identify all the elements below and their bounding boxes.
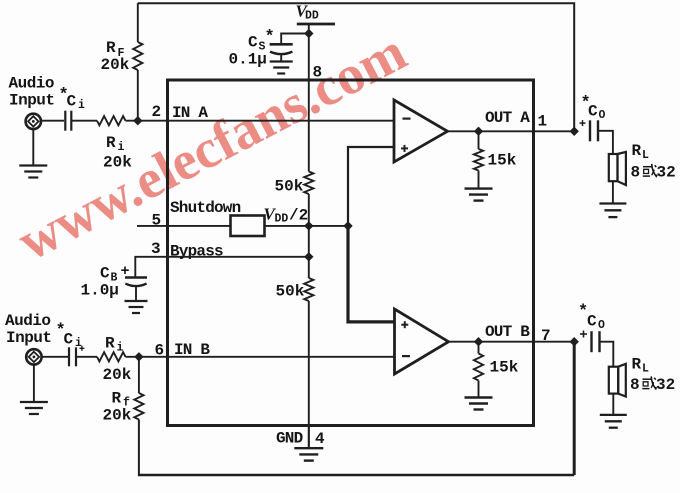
label 15k (B) <box>490 359 519 377</box>
wire: op-amp B output to OUT B pin 7 <box>449 341 575 343</box>
input jack B <box>26 349 41 364</box>
resistor 15k (channel B internal load) <box>474 354 483 381</box>
wire: CB to bypass bias node <box>135 257 308 277</box>
ground: CS <box>270 62 293 74</box>
node: bias at shutdown line <box>305 222 313 230</box>
wire: speaker A to ground <box>612 181 614 203</box>
svg-text:Audio: Audio <box>5 312 51 330</box>
label OUT B <box>485 323 530 341</box>
ground: input jack B <box>20 365 48 414</box>
svg-text:OUT A: OUT A <box>485 109 530 127</box>
label 15k (A) <box>488 152 517 170</box>
svg-text:i: i <box>118 141 125 154</box>
svg-text:i: i <box>117 342 124 355</box>
svg-text:Input: Input <box>9 92 55 110</box>
label GND <box>276 430 303 448</box>
ground: 15k B <box>465 398 493 410</box>
label Rf value 20k (B) <box>103 407 132 425</box>
svg-text:2: 2 <box>152 103 162 121</box>
wire: CO B to speaker B <box>600 342 614 367</box>
wire: 15k B to ground <box>478 381 480 398</box>
resistor Ri 20k (channel A input) <box>97 116 126 125</box>
svg-text:15k: 15k <box>490 359 519 377</box>
label RL value 8 or 32 ohm (A) <box>631 164 676 182</box>
svg-text:8: 8 <box>313 64 323 82</box>
capacitor Ci (channel B input) <box>69 347 76 366</box>
wire: CO A to speaker A <box>598 131 613 154</box>
svg-text:6: 6 <box>155 342 165 360</box>
pin 3 label <box>151 240 161 258</box>
label RF value 20k <box>101 56 130 74</box>
node: Vdd / CS junction <box>305 30 313 38</box>
wire: pin 5 stub to Vdd/2 box <box>137 225 231 227</box>
label Audio Input (channel B) <box>5 312 52 347</box>
label RL value 8 or 32 ohm (B) <box>630 376 675 394</box>
svg-text:IN A: IN A <box>172 104 208 122</box>
svg-text:R: R <box>632 356 642 374</box>
svg-text:20k: 20k <box>103 154 132 172</box>
wire: channel A feedback from RF top to OUT A node <box>138 3 574 131</box>
svg-text:+: + <box>121 263 130 280</box>
capacitor CO (channel B output) <box>592 331 600 352</box>
label VDD/2 <box>264 205 309 226</box>
wire: op-amp A output to OUT A pin 1 <box>448 130 575 132</box>
ground: input jack A <box>19 129 47 177</box>
svg-text:O: O <box>599 109 606 122</box>
wire: 50k lower to GND pin 4 <box>308 301 310 448</box>
label CS* <box>248 28 275 54</box>
label RF <box>106 39 125 60</box>
label 50k upper <box>275 178 304 196</box>
wire: jack A to Ci <box>41 120 64 122</box>
svg-text:C: C <box>248 34 258 52</box>
svg-text:20k: 20k <box>101 56 130 74</box>
svg-text:R: R <box>106 39 116 57</box>
op-amp B non-inverting mark <box>401 321 408 328</box>
label Ri value 20k (B) <box>103 366 132 384</box>
wire: OUT B node to 15k (B) <box>478 342 480 354</box>
label VDD <box>296 2 319 23</box>
label Audio Input (channel A) <box>9 75 55 110</box>
svg-text:1.0µ: 1.0µ <box>81 282 119 300</box>
Vdd/2 regulator box <box>231 216 265 237</box>
label *CO (A) <box>581 94 606 122</box>
label Rf (B) <box>112 390 131 410</box>
wire: Ci to Ri (A) <box>71 120 97 122</box>
pin 6 label <box>155 342 165 360</box>
capacitor CB 1.0u (bypass) <box>125 278 147 302</box>
wire: 15k A to ground <box>478 171 480 189</box>
svg-text:*: * <box>265 28 275 47</box>
wire: RF bottom lead to IN A node <box>137 70 139 121</box>
resistor 50k (lower bias divider) <box>304 278 313 301</box>
node: IN A junction <box>134 117 142 125</box>
svg-text:50k: 50k <box>275 178 304 196</box>
svg-text:OUT B: OUT B <box>485 323 530 341</box>
wire: Vdd rail down to pin 8 <box>308 24 310 172</box>
op-amp B (triangle) <box>395 309 449 374</box>
svg-text:C: C <box>67 93 77 111</box>
svg-text:L: L <box>642 149 649 162</box>
wire: OUT A node to 15k (A) <box>478 131 480 149</box>
label Shutdown <box>170 199 241 217</box>
resistor 50k (upper bias divider) <box>304 172 313 195</box>
op-amp A inverting mark <box>403 117 411 119</box>
node: bias at bypass line <box>305 253 313 261</box>
label Bypass <box>170 243 223 261</box>
label RL (A) <box>632 142 650 162</box>
svg-text:Audio: Audio <box>9 75 55 93</box>
label CS value 0.1u <box>229 51 267 69</box>
svg-text:O: O <box>598 319 605 332</box>
svg-text:50k: 50k <box>276 283 305 301</box>
resistor Ri 20k (channel B input) <box>97 352 126 361</box>
label *Ci (B) <box>56 322 83 351</box>
polarity + mark CO A <box>580 120 586 126</box>
label IN A <box>172 104 208 122</box>
resistor 15k (channel A internal load) <box>474 149 483 171</box>
svg-text:i: i <box>78 99 85 112</box>
watermark www.elecfans.com <box>8 21 416 273</box>
svg-text:DD: DD <box>305 10 319 23</box>
wire: channel B feedback riser to OUT B node <box>573 342 576 475</box>
node: Vdd/2 at op-amp bias rail <box>344 222 352 230</box>
polarity + mark CO B <box>580 331 587 338</box>
resistor RF 20k (channel A feedback) <box>133 42 142 70</box>
speaker RL (channel A load) <box>609 152 626 185</box>
svg-text:R: R <box>105 335 115 353</box>
svg-text:4: 4 <box>315 430 325 448</box>
label Ri value 20k (A) <box>103 154 132 172</box>
wire: bias to op-amp B non-inverting input <box>348 226 395 322</box>
svg-text:20k: 20k <box>103 366 132 384</box>
svg-text:Input: Input <box>6 329 52 347</box>
node: OUT B external junction <box>570 338 578 346</box>
node: OUT B / 15k junction <box>475 338 483 346</box>
svg-text:/2: /2 <box>289 207 308 225</box>
ground: speaker B <box>600 415 627 428</box>
label OUT A <box>485 109 530 127</box>
pin 2 label <box>152 103 162 121</box>
Vdd rail bar <box>297 23 335 26</box>
label *Ci (A) <box>59 86 86 112</box>
label IN B <box>174 341 210 359</box>
svg-text:Bypass: Bypass <box>170 243 223 261</box>
capacitor Ci (channel A input) <box>65 111 71 131</box>
svg-text:C: C <box>588 103 598 121</box>
label RL (B) <box>632 356 650 376</box>
ground: 15k A <box>465 189 493 201</box>
label Ri (A) <box>106 134 125 154</box>
capacitor CO (channel A output) <box>590 120 598 141</box>
pin 4 label <box>315 430 325 448</box>
svg-text:C: C <box>100 265 110 283</box>
wire: Ri B to pin 6 / op-amp B inverting input <box>126 356 395 358</box>
svg-text:32: 32 <box>656 376 675 394</box>
ground: speaker A <box>599 204 626 218</box>
svg-text:C: C <box>64 331 74 349</box>
svg-text:R: R <box>112 390 122 408</box>
op-amp A non-inverting mark <box>401 145 408 152</box>
svg-text:8: 8 <box>630 376 640 394</box>
wire: pin 4 stub <box>308 426 310 449</box>
svg-text:IN B: IN B <box>174 341 210 359</box>
pin 7 label <box>541 327 551 345</box>
svg-text:3: 3 <box>151 240 161 258</box>
svg-text:R: R <box>106 134 116 152</box>
wire: Vdd node to CS <box>281 34 309 45</box>
label CB value 1.0u <box>81 282 119 300</box>
wire: Ri to pin2 / op-amp A inverting input <box>126 120 395 122</box>
wire: 50k upper to 50k lower <box>308 194 310 278</box>
op-amp A (triangle) <box>394 100 448 162</box>
speaker RL (channel B load) <box>609 364 626 397</box>
svg-text:0.1µ: 0.1µ <box>229 51 267 69</box>
label Ri (B) <box>105 335 124 355</box>
IC package box (LM4863 dual audio amplifier) <box>168 80 534 426</box>
node: OUT A / 15k junction <box>475 127 483 135</box>
wire: bias to op-amp A non-inverting input <box>348 147 394 226</box>
wire: channel B feedback bottom run <box>138 474 574 476</box>
ground: CB <box>125 301 148 313</box>
label *CO (B) <box>578 303 605 333</box>
node: OUT A external junction <box>570 127 578 135</box>
node: IN B junction <box>135 353 143 361</box>
svg-text:R: R <box>632 142 642 160</box>
svg-text:1: 1 <box>538 113 548 131</box>
wire: Rf B bottom lead down <box>138 420 140 476</box>
polarity + mark Ci B <box>79 346 84 351</box>
svg-text:7: 7 <box>541 327 551 345</box>
pin 1 label <box>538 113 548 131</box>
svg-text:8: 8 <box>631 164 641 182</box>
label CB + <box>100 263 130 285</box>
wire: speaker B to ground <box>612 394 614 415</box>
svg-text:20k: 20k <box>103 407 132 425</box>
svg-text:L: L <box>642 363 649 376</box>
wire: Vdd/2 box to bias node <box>265 225 349 227</box>
wire: jack B to Ci <box>42 356 69 358</box>
wire: IN B node to Rf B <box>138 357 140 393</box>
input jack A <box>26 114 41 129</box>
op-amp B inverting mark <box>402 355 410 357</box>
svg-text:DD: DD <box>275 213 289 226</box>
svg-text:GND: GND <box>276 430 303 448</box>
pin 8 label <box>313 64 323 82</box>
resistor Rf 20k (channel B feedback) <box>134 393 143 420</box>
svg-text:C: C <box>587 313 597 331</box>
pin 5 label <box>152 212 162 230</box>
wire: Ci B to Ri B <box>76 356 97 358</box>
wire: RF top lead <box>137 3 139 42</box>
svg-text:32: 32 <box>657 164 676 182</box>
capacitor CS 0.1u (supply bypass) <box>270 44 293 61</box>
label 50k lower <box>276 283 305 301</box>
ground: pin 4 GND <box>294 448 323 460</box>
svg-text:15k: 15k <box>488 152 517 170</box>
